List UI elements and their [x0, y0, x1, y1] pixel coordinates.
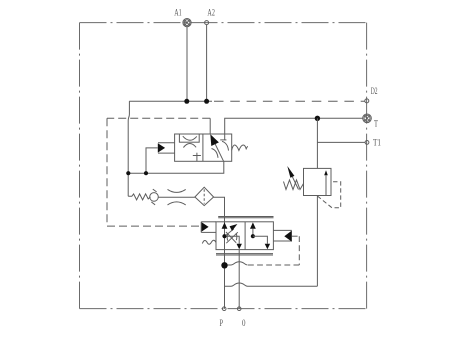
svg-text:T1: T1 — [373, 138, 381, 148]
svg-text:D2: D2 — [371, 87, 378, 97]
svg-text:A2: A2 — [207, 8, 215, 18]
svg-text:0: 0 — [242, 319, 246, 329]
svg-text:T: T — [374, 120, 378, 130]
svg-text:P: P — [220, 319, 224, 329]
svg-text:A1: A1 — [174, 8, 182, 18]
